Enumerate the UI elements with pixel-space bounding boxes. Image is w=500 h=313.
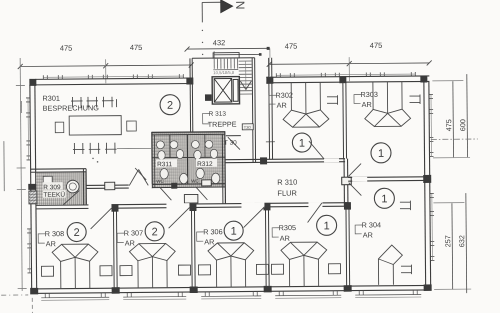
svg-text:R302: R302 bbox=[275, 91, 293, 100]
svg-text:AR: AR bbox=[277, 101, 287, 110]
svg-text:1: 1 bbox=[381, 193, 387, 205]
svg-text:R 308: R 308 bbox=[45, 229, 65, 238]
svg-text:R303: R303 bbox=[360, 90, 378, 99]
svg-text:AR: AR bbox=[363, 230, 373, 239]
svg-text:AR: AR bbox=[46, 239, 56, 248]
svg-text:R 306: R 306 bbox=[203, 227, 223, 236]
svg-text:R 304: R 304 bbox=[362, 220, 382, 229]
svg-text:R311: R311 bbox=[157, 161, 173, 168]
svg-text:R312: R312 bbox=[197, 161, 213, 168]
svg-text:AR: AR bbox=[280, 234, 290, 243]
svg-text:432: 432 bbox=[213, 38, 226, 47]
svg-text:2: 2 bbox=[74, 227, 80, 239]
svg-text:R 307: R 307 bbox=[124, 228, 144, 237]
svg-text:1: 1 bbox=[231, 226, 237, 238]
svg-text:T 30: T 30 bbox=[224, 140, 237, 147]
svg-text:AR: AR bbox=[125, 239, 135, 248]
svg-text:2: 2 bbox=[167, 100, 173, 112]
svg-text:600: 600 bbox=[458, 119, 467, 131]
svg-text:475: 475 bbox=[60, 44, 73, 53]
svg-text:475: 475 bbox=[285, 42, 298, 51]
svg-text:TEEKÜ: TEEKÜ bbox=[43, 191, 65, 199]
svg-text:475: 475 bbox=[444, 119, 453, 131]
svg-text:475: 475 bbox=[370, 41, 383, 50]
svg-text:1: 1 bbox=[324, 220, 330, 232]
svg-text:T30: T30 bbox=[244, 125, 252, 130]
svg-text:257: 257 bbox=[443, 235, 452, 247]
svg-text:1: 1 bbox=[378, 148, 384, 160]
svg-text:N: N bbox=[233, 1, 247, 10]
svg-text:632: 632 bbox=[457, 235, 466, 247]
svg-text:WC: WC bbox=[191, 178, 199, 183]
svg-text:R305: R305 bbox=[279, 223, 297, 232]
svg-text:10,5/18/5,8: 10,5/18/5,8 bbox=[213, 70, 235, 75]
svg-text:FLUR: FLUR bbox=[277, 189, 297, 198]
svg-text:R 313: R 313 bbox=[209, 111, 227, 118]
svg-text:R 310: R 310 bbox=[277, 178, 297, 187]
svg-text:AR: AR bbox=[362, 100, 372, 109]
svg-text:1: 1 bbox=[299, 138, 305, 150]
svg-text:BESPRECHUNG: BESPRECHUNG bbox=[43, 103, 100, 112]
svg-text:TREPPE: TREPPE bbox=[208, 120, 237, 129]
svg-text:R301: R301 bbox=[42, 94, 60, 103]
svg-text:AR: AR bbox=[204, 237, 214, 246]
svg-text:2: 2 bbox=[152, 226, 158, 238]
svg-text:WC: WC bbox=[156, 179, 164, 184]
svg-text:475: 475 bbox=[130, 43, 143, 52]
